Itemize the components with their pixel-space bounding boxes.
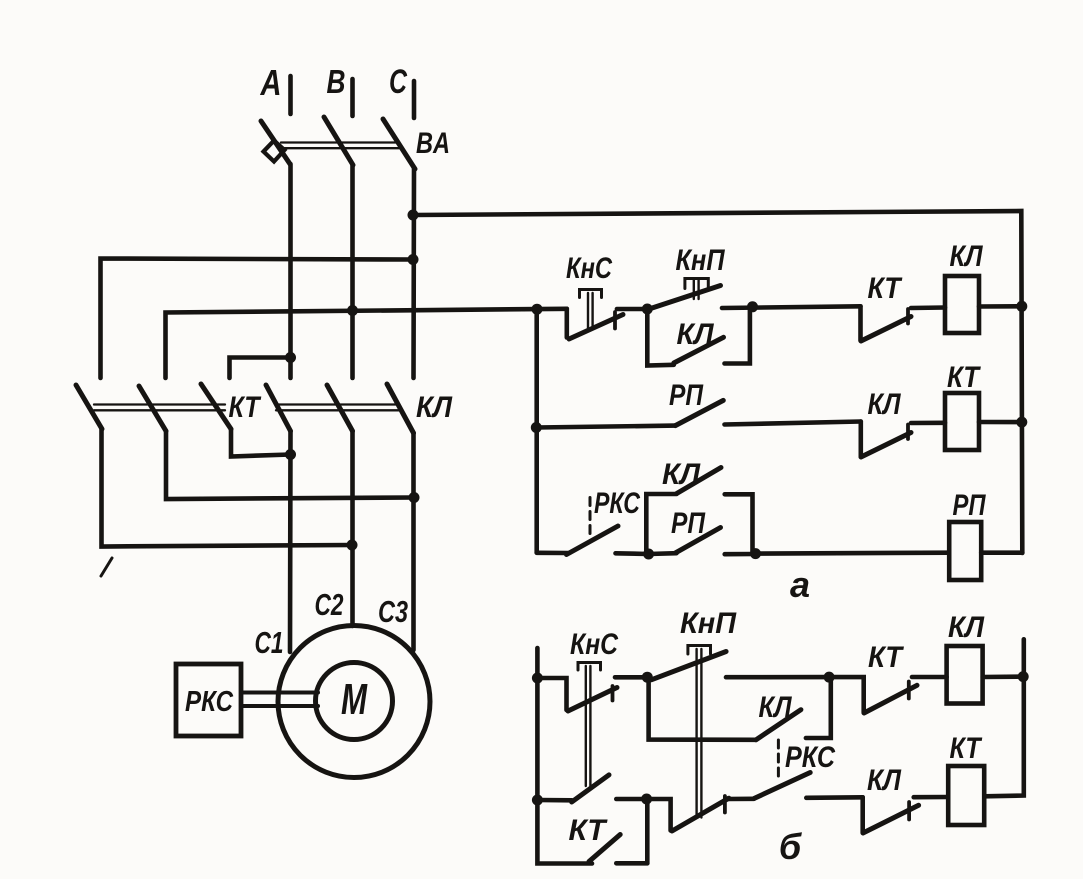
svg-text:КЛ: КЛ xyxy=(416,391,453,424)
wire RKS right b xyxy=(806,795,862,800)
button KnP lower tick b xyxy=(723,796,727,813)
svg-text:КТ: КТ xyxy=(868,272,903,305)
node left rail rung2 b xyxy=(532,795,543,806)
contactor KT blade pole 3 xyxy=(201,384,231,429)
node KnP right b xyxy=(824,672,835,683)
wire A to KT pole3 top xyxy=(230,358,291,379)
node on C lower xyxy=(409,492,420,503)
wire C to KT pole1 top xyxy=(101,259,414,379)
svg-text:BA: BA xyxy=(416,127,450,160)
svg-text:КТ: КТ xyxy=(569,814,609,847)
svg-text:C3: C3 xyxy=(378,594,408,629)
breaker BA handle xyxy=(264,141,285,162)
wire left drop rung1 to rung3 xyxy=(534,309,539,552)
button KnS contact stop tick xyxy=(613,312,617,329)
contact KL holding blade xyxy=(674,337,724,363)
svg-text:КЛ: КЛ xyxy=(868,388,902,421)
contact RKS actuator dashed b xyxy=(777,740,780,781)
wire to KT coil b xyxy=(914,795,949,800)
wire KL break to KT coil xyxy=(911,420,945,425)
button KnS cap bar b xyxy=(578,663,601,671)
wire KT pole2 bottom to C xyxy=(166,431,414,499)
svg-text:КТ: КТ xyxy=(229,391,262,424)
node rung3 right xyxy=(750,548,761,559)
wire KnS to node b xyxy=(615,675,647,680)
wire RP coil to rail corner xyxy=(981,550,1022,555)
contact KL break blade xyxy=(861,433,911,458)
contact KL holding: left drop xyxy=(647,309,674,366)
contactor KT blade pole 1 xyxy=(76,385,102,429)
coil KT xyxy=(945,393,979,450)
breaker BA blade pole B xyxy=(324,117,353,165)
node rail rung1 xyxy=(1016,301,1027,312)
wire KL coil to right rail xyxy=(979,304,1022,309)
contactor KL blade pole 3 xyxy=(387,384,414,433)
motor M inner circle xyxy=(316,663,393,740)
phase C terminal stub xyxy=(412,81,417,118)
contact KT break: step down xyxy=(858,306,863,340)
svg-text:б: б xyxy=(779,826,803,867)
svg-text:РКС: РКС xyxy=(185,686,234,718)
button KnS lower blade b xyxy=(572,775,609,802)
node on A xyxy=(285,352,296,363)
contactor KL blade pole 2 xyxy=(327,385,353,431)
node rung2 mid b xyxy=(641,794,652,805)
contact KT parallel blade b xyxy=(589,835,620,862)
node after KnS xyxy=(642,304,653,315)
wire phase B upper xyxy=(350,165,355,378)
coil KL xyxy=(945,276,979,333)
wire rung1 b start xyxy=(537,678,566,710)
wire to KL coil b xyxy=(912,675,947,680)
node on A lower xyxy=(285,449,296,460)
button KnP lower: step down b xyxy=(647,799,671,831)
node KnP right xyxy=(747,301,758,312)
button KnS stop: step down xyxy=(564,309,569,338)
svg-text:B: B xyxy=(327,63,346,100)
contactor KL blade pole 1 xyxy=(266,385,291,431)
contact KL break tick b xyxy=(907,802,911,820)
button KnS plunger b xyxy=(585,666,587,786)
wire KT pole1 bottom to B xyxy=(102,429,353,547)
wire rung2 left xyxy=(536,426,675,428)
wire phase B lower to motor C2 xyxy=(350,431,355,626)
contact KL break blade b xyxy=(863,805,919,833)
svg-text:КнП: КнП xyxy=(680,607,737,640)
node on B lower xyxy=(347,540,358,551)
contact KT break b: step down xyxy=(829,677,864,713)
contact KL parallel blade xyxy=(677,468,721,494)
node rail rung2 xyxy=(1016,417,1027,428)
node on C xyxy=(408,254,419,265)
wire rung3 to RP coil xyxy=(756,550,950,555)
svg-text:КнС: КнС xyxy=(566,252,613,285)
contact RKS blade b xyxy=(754,773,810,799)
svg-text:а: а xyxy=(790,564,810,605)
node rung2 left xyxy=(531,422,542,433)
button KnP cap bar b xyxy=(688,646,711,655)
wire right rail b xyxy=(984,639,1023,796)
contact KL holding right side b xyxy=(806,677,831,738)
wire KnS lower right b xyxy=(616,797,646,802)
svg-text:КнС: КнС xyxy=(570,628,619,661)
contactor KL crossbar xyxy=(276,403,399,405)
wire KL coil to rail b xyxy=(983,674,1024,679)
wire KT break to KL coil xyxy=(911,305,945,310)
button KnP plunger xyxy=(693,280,695,299)
svg-text:A: A xyxy=(260,62,282,103)
button KnS upper blade b xyxy=(568,688,617,712)
contact KL break: step down xyxy=(858,422,863,457)
svg-text:C: C xyxy=(389,63,407,101)
svg-text:РП: РП xyxy=(671,507,706,540)
contact RP blade xyxy=(675,400,723,425)
wire phase C lower to motor C3 xyxy=(411,433,416,650)
svg-text:РКС: РКС xyxy=(594,487,641,520)
contact KL holding blade b xyxy=(756,710,801,740)
button KnS cap bar xyxy=(580,290,602,298)
button KnS plunger xyxy=(587,293,589,329)
contact RP parallel blade xyxy=(676,528,721,553)
speed relay RKS box xyxy=(176,664,241,736)
breaker BA crossbar xyxy=(281,141,399,143)
contact KL parallel right side xyxy=(725,494,753,553)
svg-text:РП: РП xyxy=(953,489,987,522)
node on B xyxy=(347,305,358,316)
contactor KT crossbar xyxy=(94,403,225,405)
svg-text:M: M xyxy=(341,675,368,724)
node rail rung1 b xyxy=(1018,671,1029,682)
wire rung2 b start xyxy=(537,798,571,803)
wire KnP lower right b xyxy=(727,796,754,801)
contact KL holding b left drop xyxy=(649,677,756,740)
contact KL break b: step down xyxy=(860,797,865,832)
svg-text:КЛ: КЛ xyxy=(662,458,701,491)
button KnP upper blade b xyxy=(651,652,726,680)
contact KT parallel riser b xyxy=(645,799,650,863)
wire phase A upper xyxy=(288,164,293,378)
svg-text:КТ: КТ xyxy=(947,361,981,394)
wire rung3 left corner xyxy=(537,550,568,555)
wire RP parallel right xyxy=(725,552,756,557)
coil RP xyxy=(949,522,981,580)
breaker BA blade pole C xyxy=(383,119,415,169)
svg-text:C1: C1 xyxy=(255,625,284,660)
wire phase C upper xyxy=(411,169,416,378)
contact KL holding right side xyxy=(725,307,750,364)
node left rail rung1 b xyxy=(532,673,543,684)
wire KnS to node xyxy=(617,307,647,312)
wire RP parallel left stub xyxy=(649,551,677,556)
svg-text:КЛ: КЛ xyxy=(950,240,984,273)
node rung3 mid xyxy=(643,549,654,560)
contact KT break blade xyxy=(861,317,911,342)
svg-text:КнП: КнП xyxy=(676,244,726,277)
svg-text:КЛ: КЛ xyxy=(677,318,715,351)
node on C top feed xyxy=(408,210,419,221)
coil KT b xyxy=(948,766,984,825)
wire KnP right b xyxy=(726,675,829,680)
wire left rail b xyxy=(537,648,592,864)
contactor KT blade pole 2 xyxy=(139,386,166,431)
contact KL parallel: left rise xyxy=(646,494,676,554)
wire phase A lower to motor C1 xyxy=(288,431,293,652)
contact RKS blade xyxy=(567,526,619,555)
wire RKS to node xyxy=(616,551,649,556)
contact RKS actuator dashed xyxy=(589,498,592,540)
breaker BA blade pole A xyxy=(261,121,290,164)
button KnS contact tick b xyxy=(611,686,615,701)
stray tick mark xyxy=(101,558,112,576)
svg-text:КЛ: КЛ xyxy=(867,764,902,797)
motor M outer circle xyxy=(278,626,430,778)
wire RP to KL break xyxy=(725,422,861,425)
coil KL b xyxy=(947,646,983,704)
svg-text:C2: C2 xyxy=(315,587,344,622)
contact KT break tick xyxy=(906,309,910,324)
wire KT parallel bottom right b xyxy=(616,861,647,866)
node control tap left xyxy=(532,304,543,315)
svg-text:КЛ: КЛ xyxy=(759,691,793,724)
button KnS blade xyxy=(569,315,623,340)
wire KT coil to right rail xyxy=(979,420,1022,425)
shaft coupling double line xyxy=(241,691,318,695)
phase A terminal stub xyxy=(288,76,293,114)
button KnP lower blade b xyxy=(672,798,729,831)
wire top feed from C to right rail xyxy=(413,211,1022,553)
wire B to KT pole2 top and control tap xyxy=(166,309,567,378)
svg-text:КЛ: КЛ xyxy=(948,611,985,644)
node after KnS b xyxy=(642,672,653,683)
svg-text:РКС: РКС xyxy=(785,741,836,774)
contact KL break tick xyxy=(906,425,910,440)
wire KnP right to KT contact xyxy=(722,306,861,308)
button KnP plunger b xyxy=(695,649,697,818)
svg-text:КТ: КТ xyxy=(868,641,904,674)
button KnP cap bar xyxy=(685,279,708,289)
svg-text:РП: РП xyxy=(669,379,704,412)
contact KT break tick b xyxy=(907,682,911,699)
svg-text:КТ: КТ xyxy=(950,732,983,765)
wire KT pole3 bottom to A xyxy=(231,429,291,457)
phase B terminal stub xyxy=(350,79,355,116)
contact KT break blade b xyxy=(864,685,917,713)
button KnP start blade xyxy=(649,286,720,309)
